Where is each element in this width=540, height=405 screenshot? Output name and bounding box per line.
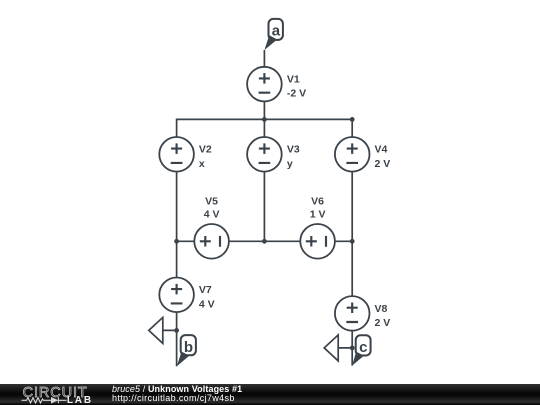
svg-text:a: a	[272, 23, 281, 40]
svg-text:4 V: 4 V	[199, 298, 215, 310]
svg-text:1 V: 1 V	[310, 209, 326, 221]
svg-text:-2 V: -2 V	[287, 88, 306, 100]
svg-text:V1: V1	[287, 74, 300, 86]
svg-text:V4: V4	[375, 144, 388, 156]
svg-text:y: y	[287, 158, 293, 170]
svg-text:V5: V5	[205, 196, 218, 208]
svg-text:V2: V2	[199, 144, 212, 156]
svg-text:V8: V8	[375, 303, 388, 315]
svg-text:c: c	[359, 339, 367, 356]
svg-text:V3: V3	[287, 144, 300, 156]
svg-text:V6: V6	[311, 196, 324, 208]
svg-text:b: b	[184, 339, 193, 356]
svg-text:V7: V7	[199, 284, 212, 296]
svg-text:2 V: 2 V	[375, 317, 391, 329]
svg-text:2 V: 2 V	[375, 158, 391, 170]
svg-text:4 V: 4 V	[204, 209, 220, 221]
svg-text:x: x	[199, 158, 205, 170]
svg-text:LAB: LAB	[67, 395, 93, 405]
